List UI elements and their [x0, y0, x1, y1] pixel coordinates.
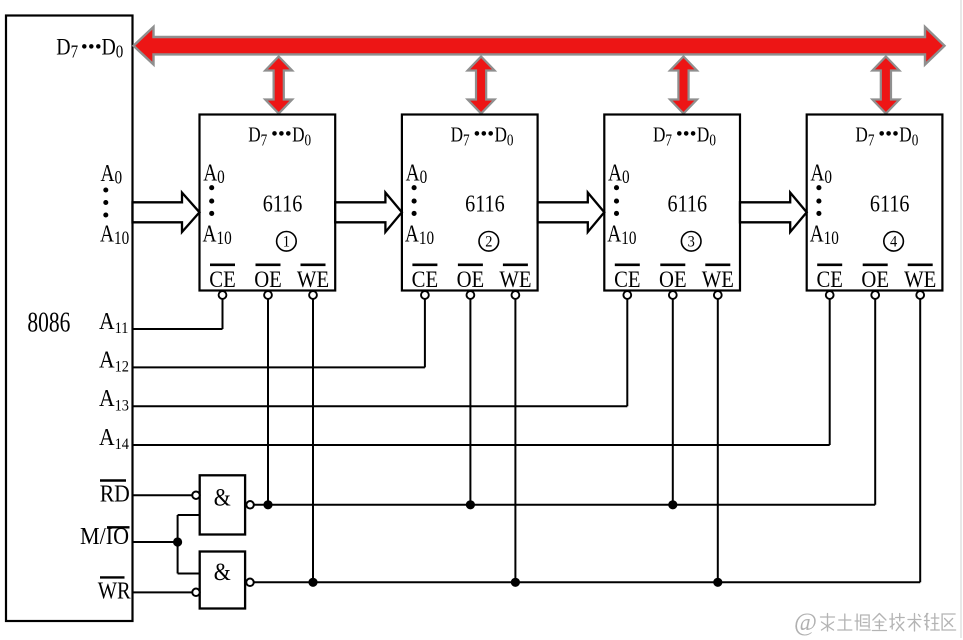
svg-text:OE: OE [457, 267, 485, 292]
svg-text:6116: 6116 [870, 190, 910, 217]
svg-text:3: 3 [688, 233, 696, 251]
svg-text:WE: WE [297, 267, 329, 292]
svg-text:8086: 8086 [27, 308, 70, 338]
svg-text:&: & [214, 484, 231, 512]
svg-text:RD: RD [100, 480, 130, 508]
svg-text:OE: OE [659, 267, 687, 292]
svg-text:WE: WE [499, 267, 531, 292]
svg-text:OE: OE [861, 267, 889, 292]
svg-text:CE: CE [614, 267, 640, 292]
svg-text:WE: WE [702, 267, 734, 292]
svg-text:WE: WE [904, 267, 936, 292]
svg-text:4: 4 [890, 233, 898, 251]
svg-text:6116: 6116 [263, 190, 303, 217]
svg-text:@: @ [794, 609, 817, 636]
svg-text:OE: OE [254, 267, 282, 292]
svg-text:WR: WR [98, 577, 131, 604]
svg-text:CE: CE [209, 267, 235, 292]
svg-text:1: 1 [283, 233, 290, 251]
svg-text:2: 2 [485, 233, 492, 251]
svg-text:6116: 6116 [668, 190, 708, 217]
svg-text:&: & [214, 559, 231, 587]
svg-text:CE: CE [412, 267, 438, 292]
svg-text:6116: 6116 [465, 190, 505, 217]
svg-text:CE: CE [816, 267, 842, 292]
